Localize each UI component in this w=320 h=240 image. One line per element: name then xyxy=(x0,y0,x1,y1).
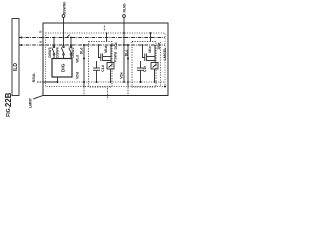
svg-text:DSW4: DSW4 xyxy=(56,47,60,57)
switch DSW3 xyxy=(53,38,55,47)
transistor M1e gate riser xyxy=(143,45,145,58)
junction (142.5,45) xyxy=(142,44,144,46)
svg-text:b: b xyxy=(39,31,43,33)
svg-text:DSW3: DSW3 xyxy=(48,47,52,57)
junction (150.5,33) xyxy=(150,32,152,34)
leader LMNT xyxy=(33,96,43,99)
node: data line DLe xyxy=(127,45,129,87)
dotted region box xyxy=(46,33,166,87)
svg-text:FIG.: FIG. xyxy=(6,107,12,117)
switch DSW2 xyxy=(70,38,72,47)
capacitor C1d xyxy=(96,61,98,68)
svg-text:a: a xyxy=(39,41,43,43)
svg-text:PSWd: PSWd xyxy=(114,52,118,62)
wire stub below (DLd continuation) xyxy=(83,87,85,96)
svg-text:RLNb: RLNb xyxy=(122,3,126,12)
svg-text:LMCEL: LMCEL xyxy=(163,47,167,60)
svg-text:VDe: VDe xyxy=(119,72,123,79)
node column d xyxy=(110,45,112,63)
node: line RLe (from RLNb) xyxy=(123,33,125,82)
junction (96.5,82) xyxy=(96,81,98,83)
terminal DSWNb xyxy=(62,15,65,18)
transistor M1d gate riser xyxy=(99,45,101,58)
pixel cell e boundary xyxy=(132,42,156,88)
junction (124,82) xyxy=(123,81,125,83)
junction (84,58.5) xyxy=(83,58,85,60)
switch DSW4 xyxy=(63,38,65,47)
labels (rotated 90 ccw) xyxy=(4,2,167,117)
stub above dotted edge xyxy=(103,26,105,31)
junction (84,82) xyxy=(83,81,85,83)
svg-text:WLd: WLd xyxy=(76,55,80,62)
junction (165,86.5) xyxy=(164,86,166,88)
junction dots xyxy=(21,32,167,87)
node: power line VD (dotted) xyxy=(58,81,166,83)
node: data line DLd xyxy=(83,45,85,87)
svg-text:DLe: DLe xyxy=(124,50,128,57)
pixel cell d boundary xyxy=(89,42,113,88)
junction (154.5,82) xyxy=(154,81,156,83)
junction (106.5,33) xyxy=(106,32,108,34)
svg-text:C1e: C1e xyxy=(143,66,147,72)
svg-text:ILD: ILD xyxy=(13,63,19,71)
wire: ILD output line a (dash-dot) xyxy=(19,44,165,46)
junction (124,45) xyxy=(123,44,125,46)
riser to dotted edge (cell e) xyxy=(150,33,152,42)
wire from DIG to left edge xyxy=(43,77,58,82)
junction (54,37.5) xyxy=(53,37,55,39)
svg-text:M1e: M1e xyxy=(148,46,152,53)
junction (63.5,37.5) xyxy=(63,37,65,39)
junction (54,45) xyxy=(53,44,55,46)
svg-text:DCd: DCd xyxy=(114,43,118,50)
node column e xyxy=(154,45,156,63)
driver block ILD xyxy=(12,19,19,96)
junction (111,45) xyxy=(110,44,112,46)
junction (128,58.5) xyxy=(127,58,129,60)
junction (140.5,82) xyxy=(140,81,142,83)
svg-text:LMNT: LMNT xyxy=(29,97,33,108)
switch blade mark xyxy=(67,35,70,38)
junction (71,45) xyxy=(70,44,72,46)
svg-text:DCe: DCe xyxy=(157,43,161,50)
junction (57.5,82) xyxy=(57,81,59,83)
partial cell edge right xyxy=(159,42,161,87)
junction (128,82) xyxy=(127,81,129,83)
junction (128,45) xyxy=(127,44,129,46)
svg-text:RSUL: RSUL xyxy=(32,72,36,83)
junction (71,37.5) xyxy=(70,37,72,39)
junction (63.5,45) xyxy=(63,44,65,46)
transistor M1d xyxy=(100,54,102,62)
junction (21.5,45) xyxy=(21,44,23,46)
svg-text:VDd: VDd xyxy=(75,72,79,79)
block DIG xyxy=(52,59,72,78)
outer solid box (panel) xyxy=(43,23,168,96)
transistor M1e xyxy=(144,54,146,62)
junction (21.5,37.5) xyxy=(21,37,23,39)
junction (98.5,45) xyxy=(98,44,100,46)
svg-text:DIG: DIG xyxy=(60,63,66,72)
svg-text:M1d: M1d xyxy=(104,46,108,53)
leader RSUL xyxy=(37,81,43,83)
terminal RLNb xyxy=(123,15,126,18)
riser to dotted edge (cell d) xyxy=(106,33,108,42)
element DCe box xyxy=(151,63,158,70)
svg-text:DSW2: DSW2 xyxy=(71,47,75,57)
junction (124,33) xyxy=(123,32,125,34)
element DCd box xyxy=(107,63,114,70)
capacitor C1e xyxy=(140,61,142,68)
svg-text:DLd: DLd xyxy=(79,48,83,55)
svg-text:DSWNb: DSWNb xyxy=(62,2,66,15)
svg-text:22B: 22B xyxy=(4,92,13,107)
junction (84,45) xyxy=(83,44,85,46)
junction (110.5,82) xyxy=(110,81,112,83)
svg-text:C1d: C1d xyxy=(101,65,105,71)
wire: ILD output line b (dash-dot) xyxy=(19,37,165,39)
